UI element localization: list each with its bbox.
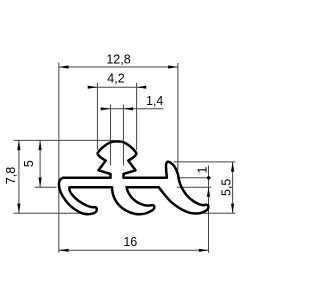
svg-text:12,8: 12,8 [106, 53, 130, 67]
dimension line 1.4 [100, 108, 164, 110]
arrowhead 7.8 top [17, 140, 20, 150]
arrowhead 4.2 right (outside) [137, 86, 147, 89]
extension line 4.2 right [136, 83, 138, 150]
extension line 1.4 left [110, 105, 112, 166]
extension line 1 bottom (base bottom) [177, 186, 211, 188]
arrowhead 12.8 right [168, 65, 178, 68]
extension line 5.5 top [174, 161, 236, 163]
arrowhead 5.5 top [231, 162, 234, 172]
dimension line 5 [39, 140, 41, 187]
svg-text:1,4: 1,4 [146, 94, 163, 108]
svg-text:16: 16 [123, 235, 137, 249]
extension line top (shared 7.8 / 5) [14, 139, 115, 141]
profile outline (seal cross-section) [59, 141, 209, 214]
extension line right vertical (1 / 16) [208, 166, 210, 253]
arrowhead 5 bottom [39, 178, 42, 188]
arrowhead 1.4 left (outside) [101, 107, 111, 110]
extension line 5.5 bottom [202, 212, 235, 214]
svg-text:4,2: 4,2 [107, 72, 124, 86]
dimension line 4.2 [88, 86, 146, 88]
arrowhead 12.8 left [59, 65, 69, 68]
dimension line 12.8 [59, 66, 178, 68]
arrowhead 7.8 bottom [17, 204, 20, 214]
svg-text:7,8: 7,8 [4, 167, 18, 184]
extension line 7.8 bottom [14, 212, 89, 214]
arrowhead 5 top [39, 140, 42, 150]
dimension line 16 [59, 249, 209, 251]
arrowhead 5.5 bottom [231, 204, 234, 214]
arrowhead 16 right [199, 249, 209, 252]
dimension line 5.5 [232, 162, 234, 213]
extension line 1.4 right [122, 105, 124, 166]
extension line 4.2 left [96, 83, 98, 150]
extension line 5 bottom [35, 186, 57, 188]
arrowhead 1 bottom (outside, pointing up) [207, 187, 210, 197]
extension line 12.8 right (horn) [177, 63, 179, 170]
extension line 1 top (base top) [180, 177, 212, 179]
extension line left (shared 12.8 / 16) [58, 63, 60, 253]
svg-text:5,5: 5,5 [219, 179, 233, 196]
arrowhead 1.4 right (outside) [123, 107, 133, 110]
svg-text:1: 1 [195, 166, 209, 173]
dot 1 top [207, 176, 210, 179]
dimension line 7.8 [18, 140, 20, 213]
arrowhead 16 left [59, 249, 69, 252]
arrowhead 4.2 left (outside) [88, 86, 98, 89]
svg-text:5: 5 [22, 160, 36, 167]
